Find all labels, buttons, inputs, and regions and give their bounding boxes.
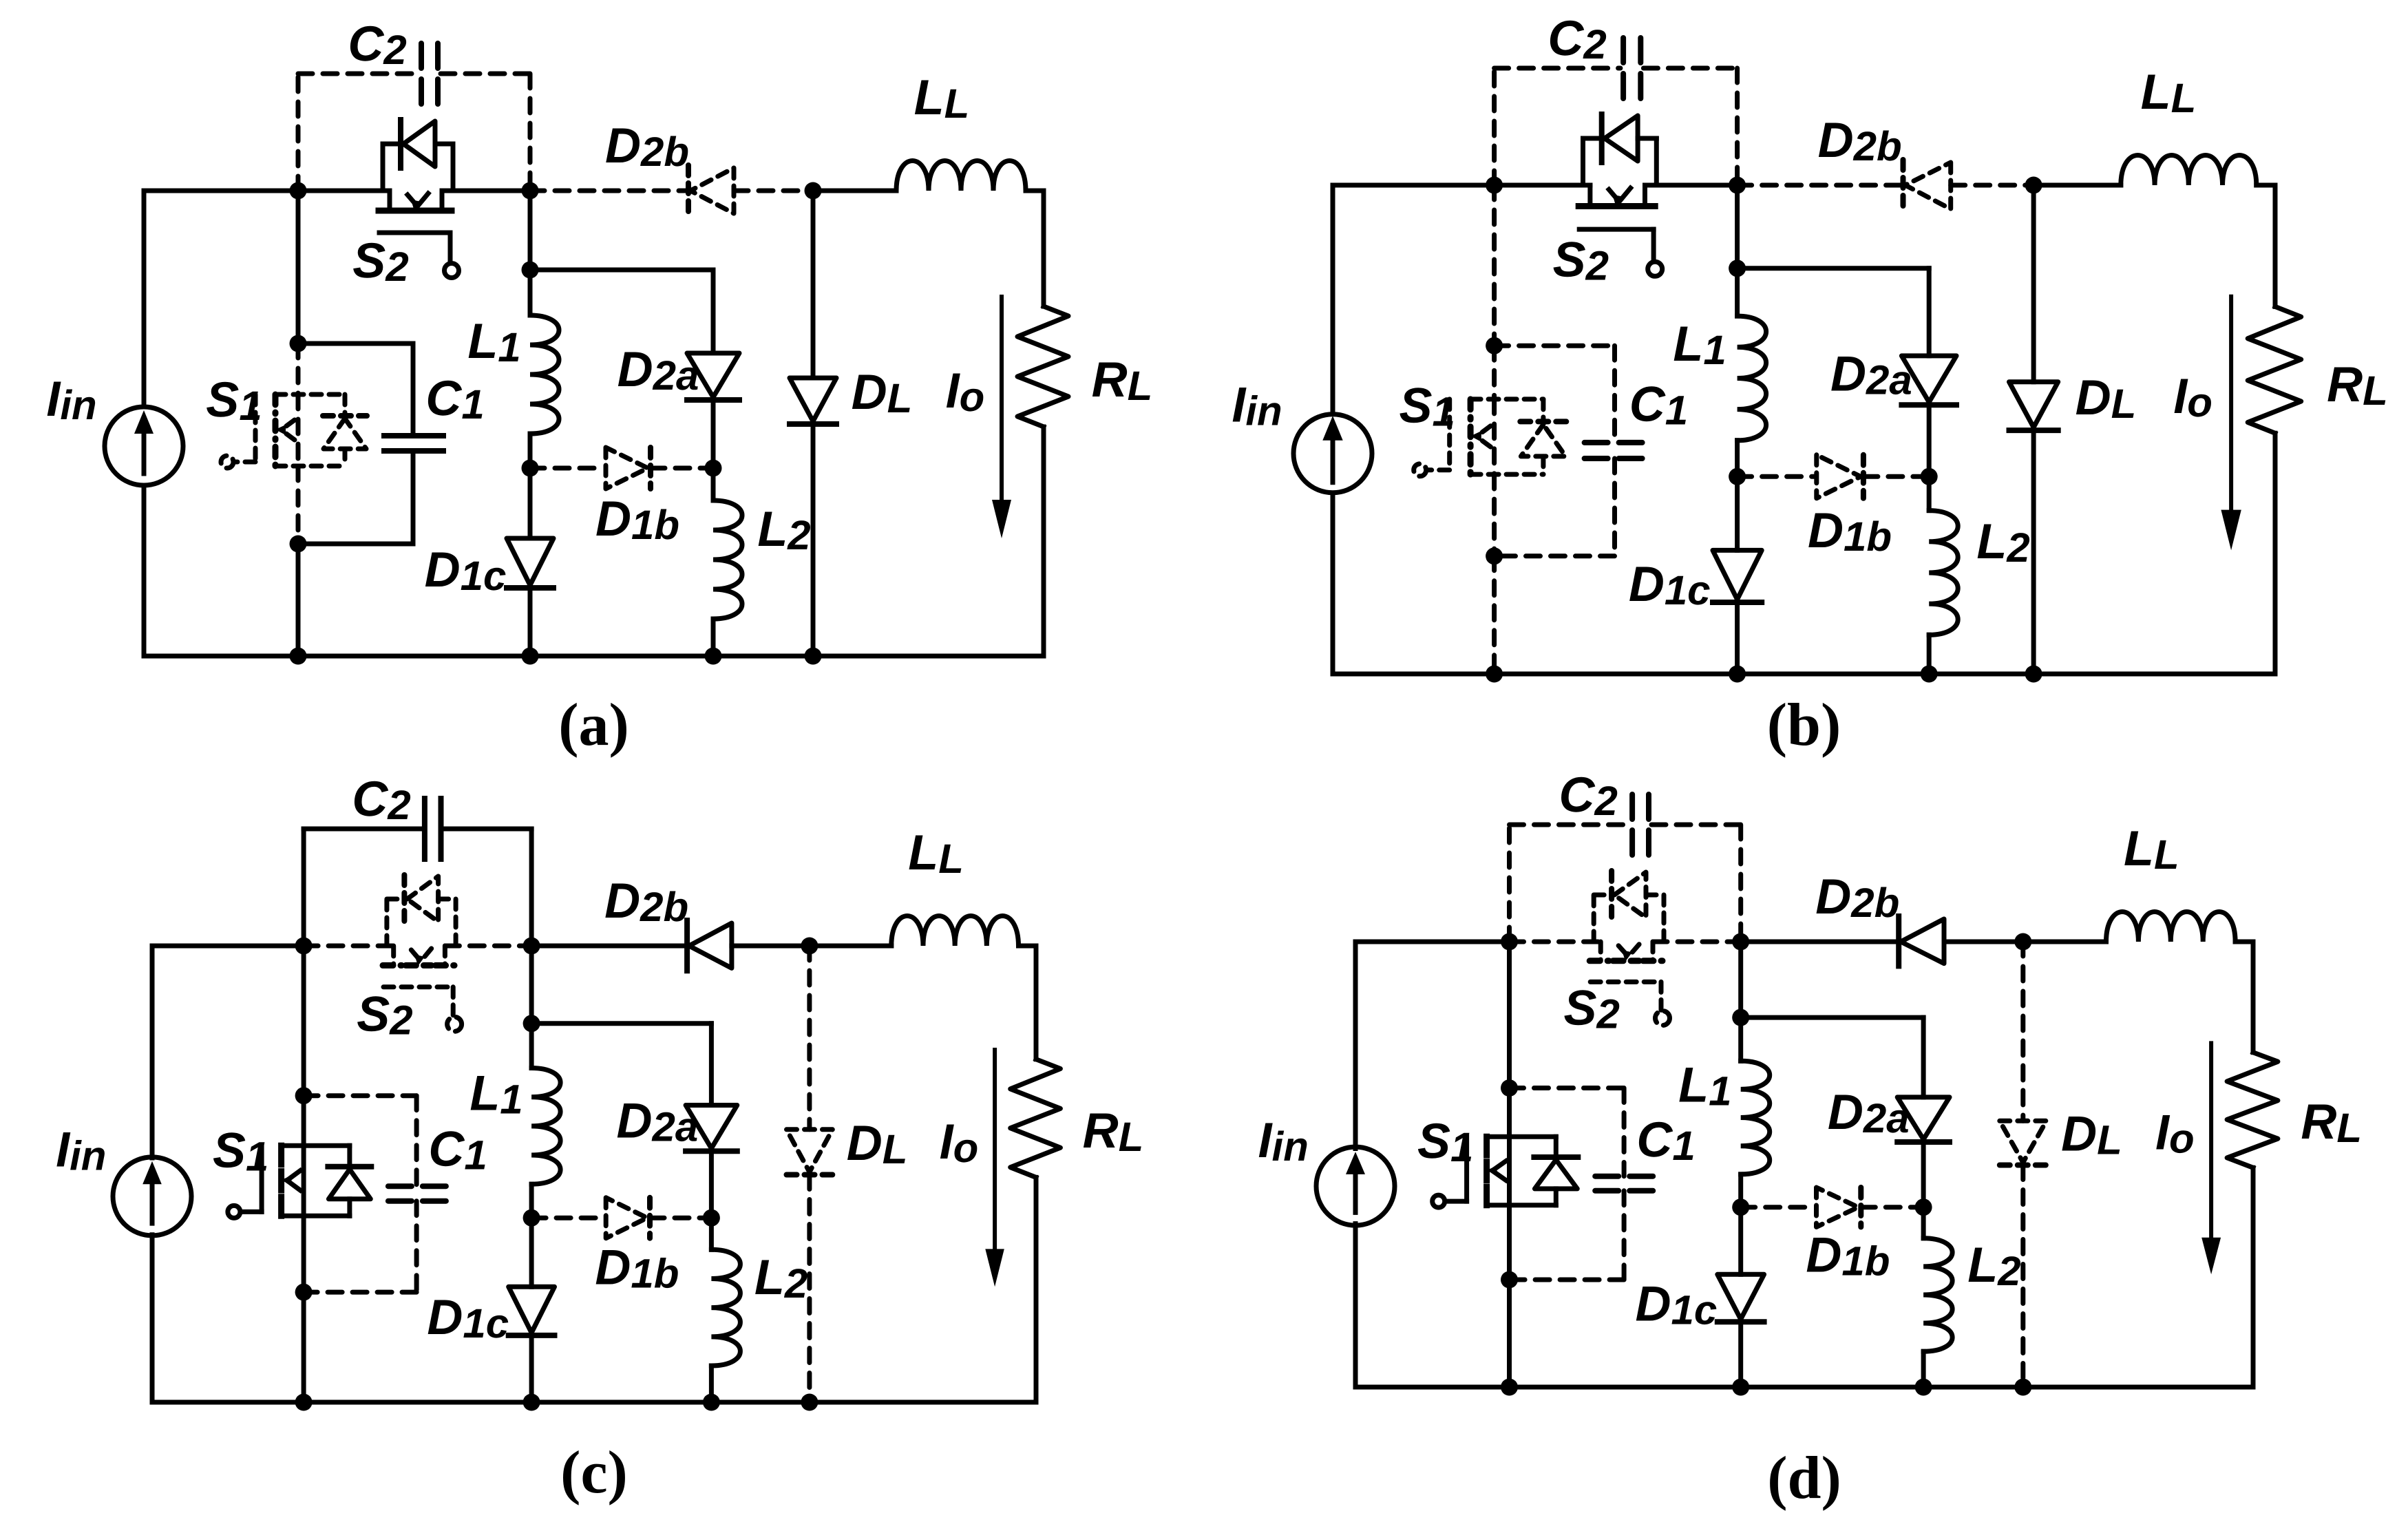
- wire top rail to S2 (b): [1495, 183, 1590, 188]
- wire jog to D2a (c): [531, 1021, 711, 1026]
- wire C1 upper (a): [411, 343, 416, 436]
- wire left rail upper (b): [1331, 185, 1335, 412]
- wire C1 upper (d): [1622, 1088, 1627, 1176]
- wire D2a top (b): [1927, 268, 1932, 356]
- body diode of S1 (d): [1554, 1137, 1559, 1157]
- node L1 ground (a): [522, 648, 539, 665]
- svg-text:(d): (d): [1767, 1445, 1841, 1512]
- wire D2a top (a): [711, 270, 716, 353]
- wire D2b anode side (b): [1738, 183, 1903, 188]
- wire D2a to L2 (d): [1921, 1142, 1926, 1207]
- diode D2a (b): [1901, 356, 1956, 402]
- node column ground (c): [295, 1394, 313, 1411]
- wire column top (b): [1492, 185, 1497, 346]
- wire column bottom (a): [296, 544, 301, 656]
- wire D2b anode side (a): [530, 189, 688, 193]
- wire D1c top (b): [1735, 476, 1740, 550]
- diode DL (b): [2009, 382, 2058, 427]
- capacitor C2 (a): [419, 43, 424, 104]
- node D1b left (b): [1729, 468, 1746, 485]
- node L2 ground (b): [1921, 666, 1938, 683]
- wire column mid2 (a): [296, 466, 301, 544]
- wire C2 right (a): [528, 74, 533, 191]
- wire column top (c): [302, 946, 306, 1096]
- svg-text:(c): (c): [560, 1439, 628, 1506]
- svg-text:(a): (a): [558, 692, 629, 759]
- wire C1 bottom jog (d): [1510, 1278, 1625, 1282]
- wire top rail to LL (d): [2023, 940, 2106, 944]
- wire column mid2 (b): [1492, 474, 1497, 556]
- node column ground (d): [1501, 1379, 1518, 1396]
- wire L1 bottom (c): [529, 1184, 534, 1218]
- capacitor C1 (a): [384, 433, 443, 438]
- node L2 ground (d): [1915, 1379, 1932, 1396]
- diode D1c (d): [1718, 1274, 1764, 1319]
- wire L2 top (a): [711, 468, 716, 500]
- wire node B down (d): [1738, 942, 1743, 1017]
- node C1 bottom (a): [290, 536, 307, 553]
- node L1 ground (d): [1732, 1379, 1749, 1396]
- wire top rail from S2 (a): [442, 189, 530, 193]
- wire C2 top-right (a): [441, 72, 530, 76]
- diode DL (a): [790, 378, 836, 421]
- transistor S1 (d): [1487, 1134, 1556, 1139]
- wire C2 top-right (d): [1651, 823, 1741, 827]
- wire DL top (b): [2031, 185, 2036, 382]
- wire DL top (a): [811, 191, 816, 378]
- node L1 jog (b): [1729, 260, 1746, 277]
- transistor S1 (b): [1470, 397, 1543, 401]
- node D1b left (a): [522, 460, 539, 477]
- wire C1 lower (a): [411, 451, 416, 544]
- wire L2 bottom (d): [1921, 1351, 1926, 1387]
- node D1b right (c): [703, 1209, 720, 1227]
- body diode of S2 (b): [1581, 138, 1585, 185]
- wire column bottom (d): [1507, 1280, 1512, 1387]
- svg-text:(b): (b): [1767, 692, 1841, 759]
- capacitor C2 (d): [1629, 794, 1635, 855]
- wire D1b right (a): [651, 466, 713, 471]
- wire D1b left (c): [531, 1216, 604, 1220]
- wire left rail upper (a): [142, 191, 147, 407]
- diode D1c (c): [509, 1287, 555, 1333]
- diode DL (c): [787, 1130, 833, 1172]
- wire D2b cathode side (b): [1951, 183, 2034, 188]
- current source Iin (b): [1293, 414, 1372, 493]
- wire D2a top (d): [1921, 1017, 1926, 1097]
- node C1 top (b): [1486, 337, 1503, 355]
- wire column top (d): [1507, 942, 1512, 1088]
- node DL ground (a): [805, 648, 822, 665]
- inductor L2 (a): [713, 500, 742, 619]
- node C1 top (d): [1501, 1079, 1518, 1097]
- diode D1b (a): [606, 447, 648, 489]
- wire C2 top-left (b): [1495, 66, 1620, 71]
- diode D1c (b): [1713, 550, 1762, 599]
- wire DL bottom (c): [807, 1175, 812, 1403]
- node C1 bottom (d): [1501, 1271, 1518, 1289]
- diode D2b (b): [1905, 162, 1951, 209]
- wire D1b left (d): [1741, 1205, 1815, 1209]
- node C (c): [801, 938, 818, 955]
- wire top rail from S2 (d): [1653, 940, 1741, 944]
- diode D1b (b): [1817, 455, 1861, 498]
- wire C2 top-right (b): [1643, 66, 1737, 71]
- node L1 ground (b): [1729, 666, 1746, 683]
- wire right rail lower (b): [2273, 433, 2278, 674]
- node B (c): [523, 938, 540, 955]
- wire top rail left (c): [152, 944, 304, 949]
- wire column through S1 (d): [1507, 1137, 1512, 1205]
- node C1 bottom (c): [295, 1284, 313, 1301]
- transistor S2 (a): [388, 191, 392, 211]
- wire C2 left (c): [302, 829, 306, 946]
- wire D1c bottom (d): [1738, 1322, 1743, 1387]
- body diode of S1 (c): [347, 1145, 352, 1166]
- inductor LL (c): [891, 916, 1019, 947]
- diode D2a (a): [687, 353, 739, 397]
- capacitor C1 (d): [1595, 1174, 1654, 1179]
- wire C2 left (b): [1492, 68, 1497, 185]
- inductor LL (d): [2106, 912, 2236, 942]
- wire D1b right (d): [1861, 1205, 1923, 1209]
- wire top rail left (a): [144, 189, 298, 193]
- inductor L2 (b): [1929, 511, 1958, 635]
- wire node B down (c): [529, 946, 534, 1024]
- node B (a): [522, 182, 539, 200]
- wire DL bottom (a): [811, 424, 816, 656]
- node B (d): [1732, 933, 1749, 951]
- resistor RL (c): [1011, 1059, 1061, 1178]
- wire D1c bottom (b): [1735, 602, 1740, 674]
- capacitor C2 (c): [422, 799, 427, 859]
- node DL ground (d): [2014, 1379, 2031, 1396]
- wire D2b cathode side (c): [732, 944, 810, 949]
- wire C2 right (d): [1738, 825, 1743, 942]
- wire D1b right (c): [650, 1216, 711, 1220]
- wire L2 top (b): [1927, 476, 1932, 510]
- diode D2a (c): [686, 1106, 737, 1149]
- wire right rail lower (d): [2251, 1167, 2256, 1387]
- transistor S2 (c): [391, 946, 396, 965]
- wire jog to D2a (d): [1741, 1015, 1923, 1020]
- wire C2 right (b): [1735, 68, 1740, 185]
- wire D2b anode side (c): [531, 944, 687, 949]
- wire column top (a): [296, 191, 301, 343]
- diode D2b (c): [689, 923, 732, 968]
- wire DL bottom (b): [2031, 430, 2036, 674]
- wire top rail right (c): [1019, 944, 1037, 949]
- wire top rail from S2 (b): [1645, 183, 1738, 188]
- transistor S1 (a): [275, 392, 345, 397]
- wire L1 top (b): [1735, 268, 1740, 316]
- inductor L1 (c): [531, 1068, 560, 1185]
- wire node B down (b): [1735, 185, 1740, 268]
- diode D2a (d): [1897, 1097, 1950, 1139]
- node B (b): [1729, 177, 1746, 194]
- wire D1b left (a): [530, 466, 604, 471]
- capacitor C2 (b): [1620, 38, 1626, 98]
- wire top rail from S2 (c): [445, 944, 531, 949]
- arrow Io (a): [1000, 297, 1004, 503]
- node DL ground (c): [801, 1394, 818, 1411]
- wire C1 lower (b): [1612, 458, 1617, 556]
- wire D2a top (c): [709, 1024, 714, 1106]
- wire D2b anode side (d): [1741, 940, 1899, 944]
- node L1 jog (c): [523, 1015, 540, 1032]
- current source Iin (c): [113, 1157, 191, 1236]
- wire C2 top-left (d): [1510, 823, 1630, 827]
- inductor L2 (d): [1923, 1238, 1952, 1352]
- wire right rail upper (c): [1034, 946, 1039, 1059]
- wire left rail lower (a): [142, 485, 147, 656]
- node A (c): [295, 938, 313, 955]
- wire C2 top-right (c): [443, 827, 531, 832]
- wire D1c top (c): [529, 1218, 534, 1287]
- wire D1b right (b): [1863, 474, 1929, 479]
- inductor L1 (d): [1741, 1061, 1770, 1174]
- arrow Io (d): [2209, 1043, 2213, 1240]
- wire C2 top-left (a): [298, 72, 419, 76]
- node D1b right (b): [1921, 468, 1938, 485]
- wire L2 top (d): [1921, 1207, 1926, 1238]
- wire C1 upper (b): [1612, 346, 1617, 443]
- wire top rail to LL (b): [2034, 183, 2121, 188]
- wire C1 top jog (d): [1510, 1086, 1625, 1090]
- wire L1 bottom (d): [1738, 1174, 1743, 1207]
- wire L1 top (c): [529, 1024, 534, 1068]
- wire D1c bottom (c): [529, 1335, 534, 1402]
- wire DL bottom (d): [2020, 1165, 2025, 1388]
- wire top rail to S2 (d): [1510, 940, 1601, 944]
- node C1 top (c): [295, 1087, 313, 1104]
- diode D2b (d): [1901, 919, 1944, 964]
- wire column bottom (c): [302, 1292, 306, 1402]
- wire jog to D2a (b): [1738, 266, 1930, 271]
- wire jog to D2a (a): [530, 268, 713, 273]
- inductor LL (a): [896, 161, 1026, 191]
- node C (d): [2014, 933, 2031, 951]
- capacitor C1 (c): [388, 1183, 446, 1189]
- wire left rail upper (c): [150, 946, 155, 1158]
- node L1 jog (a): [522, 262, 539, 279]
- body diode of S2 (a): [381, 144, 386, 191]
- wire column mid2 (d): [1507, 1205, 1512, 1280]
- wire column through S1 (c): [302, 1145, 306, 1216]
- wire D1c bottom (a): [528, 588, 533, 656]
- wire D2b cathode side (d): [1944, 940, 2023, 944]
- wire top rail to LL (c): [810, 944, 891, 949]
- wire top rail left (d): [1355, 940, 1510, 944]
- wire column through S1 (a): [296, 394, 301, 466]
- wire bottom rail (b): [1333, 672, 2275, 677]
- node A (b): [1486, 177, 1503, 194]
- wire C1 lower (d): [1622, 1191, 1627, 1280]
- node D1b right (d): [1915, 1198, 1932, 1216]
- diode D1b (d): [1817, 1187, 1859, 1227]
- resistor RL (b): [2248, 306, 2301, 433]
- wire L1 top (d): [1738, 1017, 1743, 1061]
- node C1 bottom (b): [1486, 547, 1503, 564]
- wire C1 bottom jog (c): [304, 1290, 416, 1295]
- wire L2 top (c): [709, 1218, 714, 1249]
- wire C2 right (c): [529, 829, 534, 946]
- wire D2b cathode side (a): [734, 189, 813, 193]
- wire node B down (a): [528, 191, 533, 270]
- node D1b right (a): [705, 460, 722, 477]
- wire left rail lower (c): [150, 1235, 155, 1402]
- wire DL top (d): [2020, 942, 2025, 1121]
- resistor RL (d): [2227, 1053, 2278, 1168]
- wire L2 bottom (c): [709, 1366, 714, 1402]
- resistor RL (a): [1017, 306, 1068, 427]
- wire top rail right (a): [1026, 189, 1044, 193]
- node C1 top (a): [290, 335, 307, 352]
- node C (b): [2025, 177, 2042, 194]
- wire L1 bottom (b): [1735, 441, 1740, 477]
- node L1 jog (d): [1732, 1009, 1749, 1026]
- wire D1b left (b): [1738, 474, 1815, 479]
- wire column mid1 (a): [296, 343, 301, 394]
- node column ground (b): [1486, 666, 1503, 683]
- wire column mid2 (c): [302, 1216, 306, 1292]
- wire top rail left (b): [1333, 183, 1495, 188]
- diode DL (d): [2000, 1121, 2047, 1162]
- wire top rail right (b): [2257, 183, 2275, 188]
- wire right rail lower (a): [1042, 427, 1046, 656]
- wire C1 bottom jog (a): [298, 542, 413, 547]
- wire column mid1 (d): [1507, 1088, 1512, 1137]
- arrow Io (c): [993, 1050, 997, 1251]
- diode D1b (c): [606, 1198, 647, 1238]
- wire D2a to L2 (b): [1927, 405, 1932, 476]
- current source Iin (d): [1316, 1147, 1395, 1225]
- inductor LL (b): [2121, 156, 2257, 186]
- wire C2 left (d): [1507, 825, 1512, 942]
- wire D2a to L2 (c): [709, 1151, 714, 1218]
- wire column through S1 (b): [1492, 399, 1497, 474]
- capacitor C1 (b): [1585, 440, 1647, 445]
- body diode of S1 (a): [343, 394, 348, 416]
- wire DL top (c): [807, 946, 812, 1130]
- node A (d): [1501, 933, 1518, 951]
- body diode of S2 (d): [1592, 895, 1596, 942]
- wire left rail lower (d): [1353, 1224, 1358, 1387]
- inductor L1 (b): [1738, 316, 1766, 441]
- wire C1 upper (c): [414, 1096, 419, 1187]
- body diode of S2 (c): [384, 899, 389, 946]
- inductor L1 (a): [530, 315, 559, 434]
- wire L1 bottom (a): [528, 434, 533, 468]
- node L2 ground (a): [705, 648, 722, 665]
- wire C1 bottom jog (b): [1495, 553, 1615, 558]
- wire left rail lower (b): [1331, 495, 1335, 675]
- wire right rail lower (c): [1034, 1177, 1039, 1402]
- wire top rail to S2 (a): [298, 189, 390, 193]
- wire C1 lower (c): [414, 1201, 419, 1292]
- inductor L2 (c): [711, 1249, 740, 1366]
- diode D2b (a): [690, 168, 734, 213]
- wire bottom rail (c): [152, 1400, 1036, 1405]
- wire C2 left (a): [296, 74, 301, 191]
- body diode of S1 (b): [1541, 399, 1545, 422]
- wire D2a to L2 (a): [711, 400, 716, 468]
- wire bottom rail (d): [1355, 1385, 2253, 1390]
- node D1b left (c): [523, 1209, 540, 1227]
- transistor S2 (b): [1587, 185, 1592, 207]
- wire column mid1 (b): [1492, 346, 1497, 399]
- transistor S1 (c): [282, 1143, 350, 1148]
- current source Iin (a): [105, 407, 183, 485]
- arrow Io (b): [2229, 297, 2233, 513]
- node L2 ground (c): [703, 1394, 720, 1411]
- node C (a): [805, 182, 822, 200]
- wire L2 bottom (a): [711, 619, 716, 656]
- wire D1c top (a): [528, 468, 533, 538]
- diode D1c (a): [507, 538, 553, 585]
- wire bottom rail (a): [144, 654, 1044, 659]
- node D1b left (d): [1732, 1198, 1749, 1216]
- wire right rail upper (d): [2251, 942, 2256, 1053]
- wire top rail to S2 (c): [304, 944, 394, 949]
- wire left rail upper (d): [1353, 942, 1358, 1149]
- wire column bottom (b): [1492, 556, 1497, 674]
- wire top rail to LL (a): [813, 189, 896, 193]
- node L1 ground (c): [523, 1394, 540, 1411]
- node DL ground (b): [2025, 666, 2042, 683]
- node column ground (a): [290, 648, 307, 665]
- wire D1c top (d): [1738, 1207, 1743, 1275]
- wire C1 top jog (b): [1495, 343, 1615, 348]
- node A (a): [290, 182, 307, 200]
- wire L1 top (a): [528, 270, 533, 315]
- transistor S2 (d): [1598, 942, 1603, 961]
- wire column mid1 (c): [302, 1096, 306, 1146]
- wire C2 top-left (c): [304, 827, 422, 832]
- wire C1 top jog (c): [304, 1093, 416, 1098]
- wire right rail upper (a): [1042, 191, 1046, 306]
- wire top rail right (d): [2235, 940, 2253, 944]
- wire right rail upper (b): [2273, 185, 2278, 306]
- wire L2 bottom (b): [1927, 635, 1932, 674]
- wire C1 top jog (a): [298, 341, 413, 346]
